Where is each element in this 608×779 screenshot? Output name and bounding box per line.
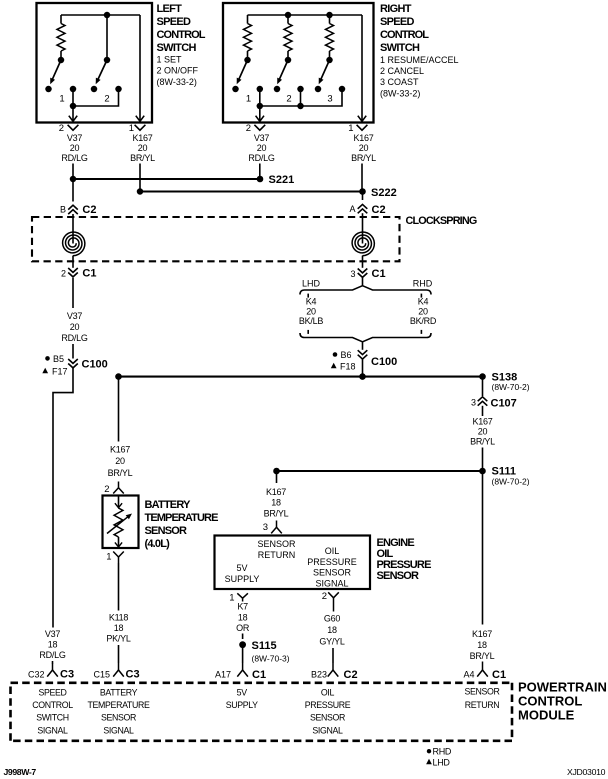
svg-text:K167: K167	[472, 417, 492, 427]
wire K167 below S111	[482, 471, 484, 625]
wire into right coil	[362, 213, 364, 243]
svg-text:V37: V37	[45, 629, 61, 639]
svg-text:PRESSURE: PRESSURE	[307, 557, 357, 567]
dashed tick top right	[420, 294, 422, 298]
wire K167 below C1 right	[362, 278, 364, 286]
svg-text:SWITCH: SWITCH	[380, 42, 420, 54]
svg-text:BATTERY: BATTERY	[100, 687, 138, 697]
svg-text:LHD: LHD	[433, 757, 451, 767]
wire K7 stub	[242, 634, 244, 640]
svg-text:B6: B6	[341, 350, 352, 360]
splice S138	[479, 371, 530, 392]
svg-text:(8W-33-2): (8W-33-2)	[157, 77, 197, 87]
svg-text:CONTROL: CONTROL	[157, 29, 206, 41]
svg-text:K167: K167	[110, 444, 130, 454]
thermistor arrow	[107, 514, 132, 534]
svg-text:RD/LG: RD/LG	[248, 153, 275, 163]
svg-text:C15: C15	[93, 669, 110, 679]
svg-text:SENSOR: SENSOR	[101, 713, 136, 723]
svg-text:C32: C32	[28, 669, 45, 679]
svg-text:C100: C100	[82, 358, 108, 370]
wire S222 bus	[140, 191, 363, 193]
clockspring dashed box	[32, 217, 400, 261]
svg-text:PRESSURE: PRESSURE	[305, 700, 351, 710]
contact 2 (right switch)	[297, 86, 304, 93]
svg-text:SENSOR: SENSOR	[310, 713, 345, 723]
svg-text:V37: V37	[67, 311, 83, 321]
connector pin 1 (left switch)	[129, 123, 146, 134]
legend LHD	[426, 757, 450, 767]
wire K7 lower	[242, 648, 244, 664]
svg-text:K4: K4	[418, 296, 429, 306]
svg-text:1: 1	[106, 552, 111, 563]
svg-text:SUPPLY: SUPPLY	[225, 574, 260, 584]
node resistor bottom (left switch)	[58, 57, 65, 64]
svg-text:RD/LG: RD/LG	[61, 333, 88, 343]
svg-text:BK/LB: BK/LB	[299, 316, 324, 326]
wire V37 jog to left	[53, 368, 73, 628]
svg-text:BR/YL: BR/YL	[108, 468, 133, 478]
pin label 2 (right switch)	[286, 94, 291, 105]
wire V37 right drop	[259, 164, 261, 180]
clockspring coil (left)	[63, 232, 85, 256]
wire pin 1 internal (right switch)	[358, 15, 366, 121]
svg-text:20: 20	[418, 306, 428, 316]
wire G60 lower	[332, 648, 334, 663]
svg-text:TEMPERATURE: TEMPERATURE	[145, 512, 219, 524]
svg-text:C3: C3	[126, 669, 140, 681]
pin label 2 (left switch)	[104, 94, 109, 105]
contact 2 (left switch)	[115, 86, 122, 93]
switch blade 2 (right switch)	[277, 60, 288, 84]
wire K167 sensor return stub	[276, 471, 278, 483]
resistor 1 (right switch)	[244, 15, 252, 59]
connector pin 3 (oil sensor)	[263, 521, 282, 534]
wire label K167 18 BR/YL (sensor)	[264, 487, 289, 519]
svg-text:G60: G60	[324, 613, 341, 623]
wire label K4 20 BK/LB	[299, 296, 324, 326]
contact 1a (left switch)	[45, 86, 52, 93]
wire V37 above C100	[72, 344, 74, 359]
wire V37 below C1	[72, 278, 74, 308]
svg-text:PK/YL: PK/YL	[106, 633, 131, 643]
node bottom bus junction b (right switch)	[297, 103, 304, 110]
svg-text:K167: K167	[132, 133, 152, 143]
connector C3 pin C15	[93, 663, 139, 681]
svg-text:C1: C1	[252, 669, 266, 681]
wire V37 into clockspring	[72, 179, 74, 202]
wire C107 to label	[482, 406, 484, 416]
svg-text:OIL: OIL	[325, 546, 340, 556]
label 5V SUPPLY (PCM)	[226, 687, 258, 710]
label XJD03010	[567, 767, 606, 777]
label BATTERY TEMPERATURE SENSOR SIGNAL	[88, 687, 150, 735]
svg-text:SENSOR: SENSOR	[377, 570, 420, 582]
svg-text:K4: K4	[306, 296, 317, 306]
wire label V37 20 RD/LG (right)	[248, 133, 275, 163]
svg-text:B5: B5	[53, 354, 64, 364]
dashed tick bottom left	[307, 330, 309, 334]
svg-text:CONTROL: CONTROL	[32, 700, 73, 710]
svg-text:2: 2	[61, 268, 66, 278]
svg-text:RD/LG: RD/LG	[61, 153, 88, 163]
switch blade 1 (right switch)	[237, 60, 248, 84]
svg-text:C1: C1	[82, 268, 96, 280]
label RHD	[413, 278, 433, 288]
label SENSOR RETURN (PCM)	[464, 686, 499, 710]
svg-text:RD/LG: RD/LG	[39, 650, 66, 660]
wire V37 above C32	[52, 661, 54, 664]
splice S111	[479, 466, 530, 487]
wire S221 bus	[73, 178, 260, 180]
svg-text:K118: K118	[109, 613, 129, 623]
dashed tick top left	[307, 294, 309, 298]
wire out of left coil	[72, 256, 74, 268]
resistor (left switch)	[57, 15, 65, 59]
resistor 2 (right switch)	[284, 15, 292, 59]
svg-text:SIGNAL: SIGNAL	[312, 725, 343, 735]
connector C2 pin B	[60, 204, 96, 216]
svg-text:20: 20	[138, 143, 148, 153]
wire K4 to C100	[362, 342, 364, 350]
contact 3 (right switch)	[339, 86, 346, 93]
svg-text:S222: S222	[371, 187, 397, 199]
wire label V37 20 RD/LG (left)	[61, 133, 88, 163]
contact 1a (right switch)	[232, 86, 239, 93]
svg-text:CONTROL: CONTROL	[380, 29, 429, 41]
svg-text:C1: C1	[492, 669, 506, 681]
svg-text:F17: F17	[52, 367, 68, 377]
svg-text:2 CANCEL: 2 CANCEL	[380, 66, 424, 76]
svg-text:2 ON/OFF: 2 ON/OFF	[157, 66, 199, 76]
svg-text:2: 2	[286, 94, 291, 105]
svg-text:C2: C2	[344, 669, 358, 681]
label SENSOR RETURN (inside)	[257, 539, 296, 560]
wire label K167 20 BR/YL (C107)	[470, 417, 495, 447]
wire K118 lower	[118, 645, 120, 663]
label CLOCKSPRING	[406, 215, 477, 227]
svg-text:20: 20	[257, 143, 267, 153]
svg-text:F18: F18	[340, 361, 356, 371]
connector pin 1 (battery sensor)	[106, 552, 124, 564]
clockspring coil (right)	[352, 232, 374, 256]
svg-text:(8W-70-2): (8W-70-2)	[492, 476, 530, 486]
wire pin 2 exit (left switch)	[69, 106, 77, 121]
svg-text:K167: K167	[472, 629, 492, 639]
splice S222	[359, 187, 397, 199]
svg-text:18: 18	[48, 640, 58, 650]
node battery sensor branch	[115, 373, 122, 380]
brace top	[300, 286, 431, 295]
svg-text:V37: V37	[254, 133, 270, 143]
wire S111 horizontal	[277, 470, 483, 472]
splice S115	[239, 640, 290, 663]
label LEFT SPEED CONTROL SWITCH	[157, 3, 206, 87]
svg-text:(8W-70-2): (8W-70-2)	[492, 382, 530, 392]
pin label 1 (left switch)	[59, 94, 64, 105]
wire K167 into clockspring	[362, 192, 364, 201]
label SPEED CONTROL SWITCH SIGNAL	[32, 687, 73, 735]
node C100 junction	[359, 373, 366, 380]
connector C3 pin C32	[28, 663, 74, 681]
label RIGHT SPEED CONTROL SWITCH	[380, 3, 459, 99]
wire K167 horizontal bus	[119, 376, 483, 378]
label POWERTRAIN CONTROL MODULE	[518, 679, 607, 722]
svg-text:20: 20	[359, 143, 369, 153]
connector C1 pin 2	[61, 268, 96, 280]
svg-text:BR/YL: BR/YL	[130, 153, 155, 163]
svg-text:BR/YL: BR/YL	[470, 437, 495, 447]
label 5V SUPPLY (inside)	[225, 563, 260, 584]
svg-text:18: 18	[477, 640, 487, 650]
wire internal top (battery sensor)	[115, 496, 122, 508]
connector C100 pin B6/F18	[331, 350, 397, 371]
svg-text:SIGNAL: SIGNAL	[315, 578, 348, 588]
wire label K118 18 PK/YL	[106, 613, 131, 644]
right speed control switch box	[223, 3, 374, 123]
wire V37 left drop	[72, 164, 74, 180]
svg-text:J998W-7: J998W-7	[4, 767, 37, 777]
contact 1 (right switch)	[257, 86, 264, 93]
svg-text:B: B	[60, 205, 66, 215]
wire label G60 18 GY/YL	[319, 613, 345, 646]
pin label 3 (right switch)	[327, 94, 332, 105]
connector pin 2 (oil sensor)	[322, 591, 339, 612]
connector C2 pin B23	[311, 663, 358, 681]
wire pin 1 internal (left switch)	[136, 15, 144, 121]
svg-text:2: 2	[246, 123, 251, 134]
svg-text:OIL: OIL	[321, 687, 335, 697]
connector pin 2 (right switch)	[246, 123, 265, 134]
node top junction b (right switch)	[326, 12, 333, 19]
label J998W-7	[4, 767, 37, 777]
label BATTERY TEMPERATURE SENSOR	[145, 499, 219, 550]
svg-text:1: 1	[246, 94, 251, 105]
wire internal top bus (left switch)	[61, 14, 140, 16]
svg-text:18: 18	[238, 612, 248, 622]
connector pin 1 (oil sensor)	[229, 593, 248, 604]
svg-text:3: 3	[263, 522, 268, 533]
dashed tick bottom right	[420, 330, 422, 334]
switch blade 1 (left switch)	[50, 60, 61, 84]
svg-text:C1: C1	[372, 268, 386, 280]
svg-text:BK/RD: BK/RD	[410, 316, 437, 326]
splice S221	[257, 174, 295, 186]
svg-text:18: 18	[114, 623, 124, 633]
node V37 junction	[70, 176, 77, 183]
wire label K167 20 BR/YL (left)	[130, 133, 155, 163]
svg-text:SENSOR: SENSOR	[464, 686, 499, 696]
svg-text:B23: B23	[311, 669, 327, 679]
wire to blade 2 pivot (left switch)	[106, 15, 108, 59]
connector C2 pin A	[349, 204, 385, 216]
wire label V37 18 RD/LG (bottom)	[39, 629, 66, 660]
wire K167 right drop	[361, 164, 363, 192]
contact 2a (right switch)	[274, 86, 281, 93]
svg-text:5V: 5V	[237, 687, 248, 697]
svg-text:K7: K7	[237, 602, 248, 612]
svg-text:(8W-33-2): (8W-33-2)	[380, 89, 420, 99]
node bottom bus junction (left switch)	[70, 103, 77, 110]
wire bottom bus (right switch)	[260, 89, 342, 106]
connector pin 1 (right switch)	[348, 123, 367, 134]
svg-text:SPEED: SPEED	[38, 687, 66, 697]
svg-text:3: 3	[471, 397, 476, 407]
powertrain control module dashed box	[11, 683, 513, 741]
svg-text:A17: A17	[215, 669, 231, 679]
wire into left coil	[72, 214, 74, 244]
node resistor 2 bottom (right switch)	[285, 57, 292, 64]
wire pin 2 exit (right switch)	[256, 106, 264, 121]
connector C107 pin 3	[471, 397, 517, 410]
svg-text:C100: C100	[371, 356, 397, 368]
wire label V37 20 RD/LG (mid)	[61, 311, 88, 343]
svg-text:2: 2	[59, 123, 64, 134]
svg-text:2: 2	[322, 591, 327, 602]
engine oil pressure sensor box	[215, 536, 371, 590]
svg-text:1: 1	[229, 593, 234, 604]
svg-text:S221: S221	[269, 174, 295, 186]
wire S138 to C107	[482, 377, 484, 396]
svg-text:C2: C2	[372, 204, 386, 216]
contact 1 (left switch)	[70, 86, 77, 93]
wire label K167 20 BR/YL (right)	[351, 133, 376, 163]
svg-text:RETURN: RETURN	[258, 550, 296, 560]
svg-text:C3: C3	[60, 669, 74, 681]
node oil sensor branch	[273, 468, 280, 475]
label OIL PRESSURE SENSOR SIGNAL (PCM)	[305, 687, 351, 735]
connector C100 pin B5/F17	[42, 354, 107, 377]
svg-text:A4: A4	[463, 669, 474, 679]
svg-text:SENSOR: SENSOR	[257, 539, 296, 549]
svg-text:SENSOR: SENSOR	[145, 525, 188, 537]
svg-text:SUPPLY: SUPPLY	[226, 700, 258, 710]
thermistor element	[114, 508, 123, 537]
node top junction (left switch)	[104, 12, 111, 19]
svg-text:POWERTRAIN: POWERTRAIN	[518, 679, 607, 694]
wire K167 below C100	[362, 359, 364, 377]
node resistor 3 bottom (right switch)	[326, 57, 333, 64]
svg-text:K167: K167	[266, 487, 286, 497]
svg-text:BR/YL: BR/YL	[351, 153, 376, 163]
brace bottom	[300, 333, 431, 342]
svg-text:3 COAST: 3 COAST	[380, 77, 419, 87]
label ENGINE OIL PRESSURE SENSOR	[377, 537, 432, 582]
wire K167 left drop	[139, 164, 141, 192]
wire label K4 20 BK/RD	[410, 296, 437, 326]
wire label K7 18 OR	[236, 602, 250, 634]
svg-text:LHD: LHD	[302, 278, 321, 288]
connector pin 2 (battery sensor)	[104, 482, 124, 496]
switch blade 2 (left switch)	[96, 60, 107, 84]
svg-text:SIGNAL: SIGNAL	[103, 725, 134, 735]
wire label K167 18 BR/YL (A4)	[470, 629, 495, 661]
svg-text:C107: C107	[491, 398, 517, 410]
svg-text:BR/YL: BR/YL	[264, 508, 289, 518]
svg-text:BATTERY: BATTERY	[145, 499, 192, 511]
svg-text:3: 3	[350, 269, 355, 279]
wire bottom bus (left switch)	[73, 89, 119, 106]
svg-text:MODULE: MODULE	[518, 707, 575, 722]
wire K118	[118, 563, 120, 611]
connector pin 2 (left switch)	[59, 123, 79, 134]
svg-text:CLOCKSPRING: CLOCKSPRING	[406, 215, 477, 227]
node bottom bus junction a (right switch)	[257, 103, 264, 110]
pin label 1 (right switch)	[246, 94, 251, 105]
svg-text:20: 20	[478, 427, 488, 437]
battery temperature sensor box	[103, 496, 139, 549]
label LHD	[302, 278, 321, 288]
wire label to S111	[482, 448, 484, 469]
svg-text:1: 1	[59, 94, 64, 105]
connector C1 pin 3	[350, 268, 385, 280]
svg-text:18: 18	[271, 498, 281, 508]
svg-text:A: A	[349, 204, 355, 214]
svg-text:SWITCH: SWITCH	[36, 713, 69, 723]
svg-text:CONTROL: CONTROL	[518, 693, 582, 708]
svg-text:3: 3	[327, 94, 332, 105]
svg-text:C2: C2	[82, 204, 96, 216]
svg-text:RHD: RHD	[413, 278, 433, 288]
wire label K167 20 BR/YL (battery)	[108, 444, 133, 478]
wire out of right coil	[362, 256, 364, 268]
svg-text:20: 20	[70, 143, 80, 153]
svg-text:K167: K167	[353, 133, 373, 143]
svg-text:2: 2	[104, 484, 109, 495]
svg-text:SPEED: SPEED	[380, 16, 415, 28]
node K167 junction	[137, 188, 144, 195]
svg-text:18: 18	[327, 625, 337, 635]
node top junction a (right switch)	[285, 12, 292, 19]
svg-text:1 SET: 1 SET	[157, 55, 183, 65]
label OIL PRESSURE SENSOR SIGNAL (inside)	[307, 546, 357, 588]
svg-text:SPEED: SPEED	[157, 16, 192, 28]
svg-text:SENSOR: SENSOR	[313, 568, 352, 578]
svg-text:1 RESUME/ACCEL: 1 RESUME/ACCEL	[380, 55, 459, 65]
contact 3a (right switch)	[315, 86, 322, 93]
left speed control switch box	[37, 3, 153, 123]
svg-text:20: 20	[115, 456, 125, 466]
wire internal top bus (right switch)	[248, 14, 363, 16]
connector C1 pin A4	[463, 662, 506, 681]
svg-text:XJD03010: XJD03010	[567, 767, 606, 777]
connector C1 pin A17	[215, 663, 266, 681]
svg-text:2: 2	[104, 94, 109, 105]
svg-text:S115: S115	[252, 640, 277, 652]
svg-text:SIGNAL: SIGNAL	[37, 725, 68, 735]
svg-text:20: 20	[70, 322, 80, 332]
switch blade 3 (right switch)	[319, 60, 330, 84]
svg-text:(4.0L): (4.0L)	[145, 538, 171, 550]
svg-text:SWITCH: SWITCH	[157, 42, 197, 54]
svg-text:GY/YL: GY/YL	[319, 636, 345, 646]
svg-text:5V: 5V	[236, 563, 247, 573]
svg-text:(8W-70-3): (8W-70-3)	[252, 653, 290, 663]
svg-text:20: 20	[306, 306, 316, 316]
svg-text:RETURN: RETURN	[465, 700, 500, 710]
wire K167 battery branch	[118, 377, 120, 442]
node resistor 1 bottom (right switch)	[244, 57, 251, 64]
svg-text:RHD: RHD	[433, 746, 452, 756]
svg-text:LEFT: LEFT	[157, 3, 183, 15]
legend RHD	[427, 746, 452, 756]
svg-text:TEMPERATURE: TEMPERATURE	[88, 700, 150, 710]
svg-text:OR: OR	[236, 623, 250, 633]
resistor 3 (right switch)	[326, 15, 334, 59]
node blade 2 pivot (left switch)	[104, 57, 111, 64]
svg-text:RIGHT: RIGHT	[380, 3, 412, 15]
svg-text:V37: V37	[67, 133, 83, 143]
